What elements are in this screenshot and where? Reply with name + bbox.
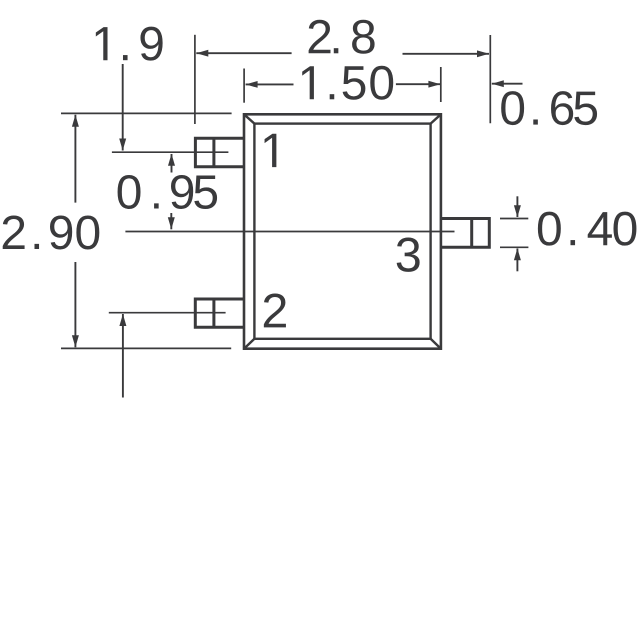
- dimension label 2.90: [3, 215, 25, 249]
- dimension line 2.8 left segment: [196, 52, 291, 54]
- dimension line 1.50 right segment: [396, 83, 441, 85]
- pin number 3: [397, 238, 420, 272]
- package body outer outline: [244, 114, 441, 348]
- arrowhead 0.40 up: [514, 248, 521, 260]
- dimension line 2.90 lower segment: [74, 262, 76, 347]
- arrowhead 2.8 right: [477, 50, 489, 57]
- pin 2 lead outline: [195, 299, 244, 327]
- pin 3 lead bend line: [470, 219, 473, 248]
- dimension line 2.90 upper segment: [74, 115, 76, 203]
- dimension line 1.9 lower segment: [122, 314, 124, 398]
- pin 2 lead bend line: [212, 299, 215, 327]
- arrowhead 0.65 left: [492, 80, 504, 87]
- dimension line 0.65: [492, 83, 523, 85]
- arrowhead 0.40 down: [514, 205, 521, 217]
- dimension line 0.95 upper segment: [171, 154, 173, 173]
- dimension label 2.8: [309, 20, 331, 54]
- arrowhead 1.50 right: [428, 81, 440, 88]
- dimension line 1.50 left segment: [246, 83, 294, 85]
- extension line bottom for 0.40: [500, 246, 528, 248]
- body corner bevel bottom-left: [244, 339, 254, 349]
- body corner bevel top-left: [244, 114, 254, 123]
- arrowhead 1.9 up: [119, 314, 126, 326]
- dimension line 0.95 lower segment: [170, 213, 172, 229]
- arrowhead 2.90 down: [72, 335, 79, 347]
- pin number 1: [265, 134, 277, 167]
- extension line left for 2.8: [194, 35, 196, 124]
- dimension label 0.65: [501, 91, 524, 125]
- dimension line 0.40 upper segment: [516, 196, 518, 217]
- arrowhead 1.50 left: [246, 81, 258, 88]
- dimension label 0.95: [118, 175, 141, 209]
- body corner bevel bottom-right: [431, 339, 441, 349]
- arrowhead 2.90 up: [72, 115, 79, 127]
- dimension label 1.9: [96, 27, 108, 60]
- arrowhead 0.95 up: [168, 154, 175, 166]
- package body inner outline: [254, 124, 430, 339]
- dimension label 0.40: [538, 212, 561, 246]
- dimension line 2.8 right segment: [403, 53, 490, 55]
- extension line top for 2.90: [61, 112, 232, 114]
- pin 3 lead outline: [441, 219, 489, 248]
- arrowhead 0.95 down: [168, 217, 175, 229]
- extension line bottom for 2.90: [61, 347, 231, 349]
- extension line right for 2.8: [489, 35, 491, 123]
- pin 2 center line: [109, 312, 226, 314]
- pin 1 lead bend line: [212, 138, 215, 167]
- dimension line 1.9 upper segment: [122, 64, 124, 151]
- arrowhead 1.9 down: [119, 139, 126, 151]
- body corner bevel top-right: [431, 114, 441, 123]
- extension line left for 1.50: [243, 69, 245, 103]
- arrowhead 2.8 left: [196, 50, 208, 57]
- dimension label 1.50: [302, 66, 314, 99]
- pin number 2: [264, 294, 286, 328]
- dimension line 0.40 lower segment: [516, 249, 518, 272]
- pin 1 lead outline: [195, 138, 244, 167]
- pin 1 center line: [112, 151, 228, 153]
- extension line right for 1.50: [440, 67, 442, 102]
- package horizontal center line: [125, 231, 454, 233]
- extension line top for 0.40: [500, 218, 528, 220]
